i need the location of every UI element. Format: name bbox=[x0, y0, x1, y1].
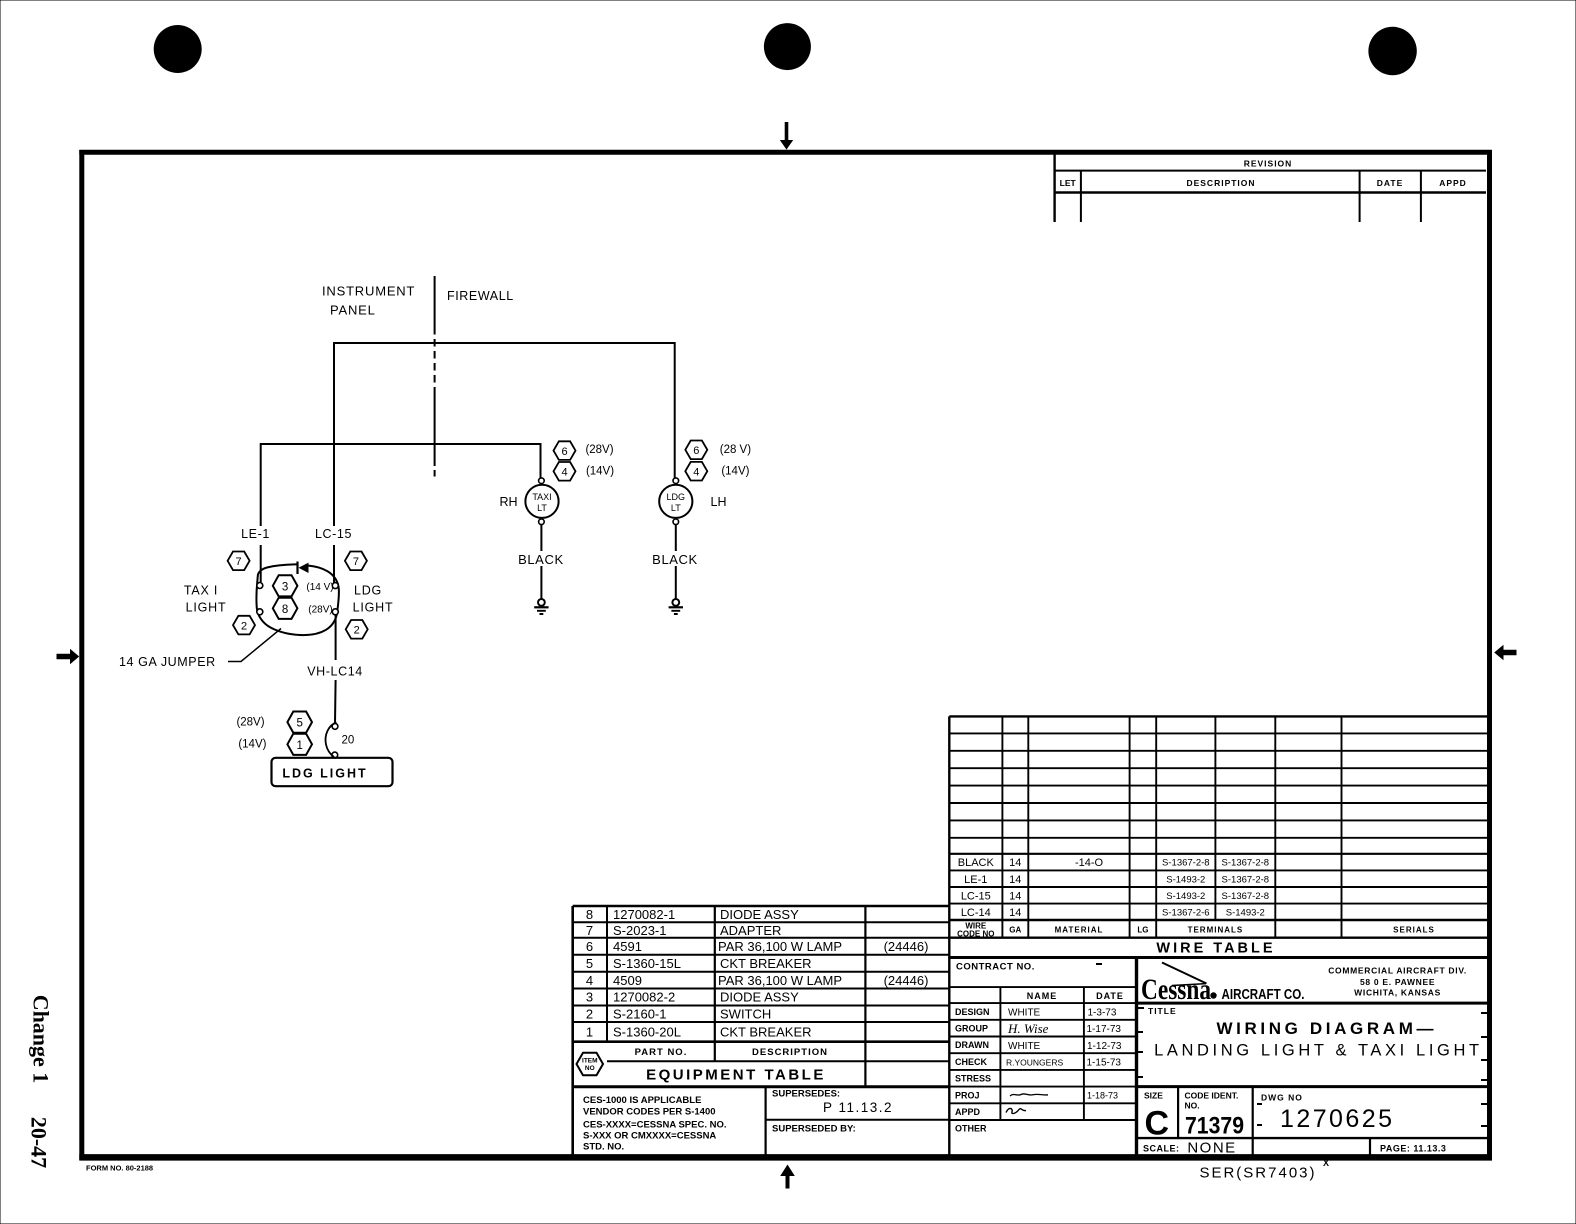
label (28V) at breaker bbox=[236, 716, 264, 728]
svg-text:GROUP: GROUP bbox=[955, 1024, 988, 1034]
diode in switch body bbox=[298, 562, 309, 575]
svg-text:S-1367-2-6: S-1367-2-6 bbox=[1162, 908, 1210, 919]
wire code hex 2 right bbox=[346, 620, 368, 639]
svg-text:4: 4 bbox=[693, 466, 699, 478]
svg-text:S-1360-15L: S-1360-15L bbox=[613, 956, 681, 971]
title block grid bbox=[949, 958, 1489, 1158]
svg-text:S-2160-1: S-2160-1 bbox=[613, 1007, 666, 1022]
wire LE-1 to RH lamp run bbox=[261, 444, 541, 582]
svg-text:SUPERSEDES:: SUPERSEDES: bbox=[772, 1089, 840, 1100]
svg-text:WICHITA, KANSAS: WICHITA, KANSAS bbox=[1354, 988, 1441, 998]
switch S2 body (taxi/ldg light switch housing) bbox=[256, 564, 338, 635]
Cessna address bbox=[1328, 965, 1467, 997]
svg-text:PANEL: PANEL bbox=[330, 303, 376, 318]
svg-text:(24446): (24446) bbox=[884, 973, 929, 988]
svg-text:LIGHT: LIGHT bbox=[353, 601, 394, 615]
svg-text:PAR 36,100 W LAMP: PAR 36,100 W LAMP bbox=[718, 973, 842, 988]
punch hole right bbox=[1368, 27, 1416, 75]
label TAXI LIGHT bbox=[184, 584, 227, 615]
svg-text:LE-1: LE-1 bbox=[964, 874, 987, 886]
svg-text:DESCRIPTION: DESCRIPTION bbox=[1186, 178, 1255, 188]
svg-text:NO.: NO. bbox=[1185, 1101, 1200, 1111]
APPD signature squiggle bbox=[1006, 1108, 1026, 1113]
svg-text:S-XXX OR CMXXXX=CESSNA: S-XXX OR CMXXXX=CESSNA bbox=[583, 1131, 716, 1142]
svg-text:BLACK: BLACK bbox=[958, 857, 995, 869]
svg-text:(28 V): (28 V) bbox=[720, 444, 751, 456]
svg-text:CES-XXXX=CESSNA SPEC. NO.: CES-XXXX=CESSNA SPEC. NO. bbox=[583, 1120, 727, 1131]
svg-text:1-15-73: 1-15-73 bbox=[1087, 1058, 1122, 1069]
label INSTRUMENT PANEL bbox=[322, 284, 415, 318]
equipment table grid bbox=[573, 906, 950, 1157]
size / code ident / dwg no bbox=[1144, 1091, 1392, 1143]
svg-text:STRESS: STRESS bbox=[955, 1074, 991, 1084]
wire code hex 4 at RH lamp bbox=[554, 462, 576, 481]
svg-text:3: 3 bbox=[586, 990, 593, 1005]
svg-text:DESCRIPTION: DESCRIPTION bbox=[752, 1047, 828, 1058]
terminal node right-top of switch bbox=[332, 583, 338, 589]
svg-text:SIZE: SIZE bbox=[1144, 1091, 1163, 1101]
svg-text:LH: LH bbox=[711, 495, 727, 509]
punch hole left bbox=[154, 25, 202, 73]
wire code hex 6 at RH lamp bbox=[554, 441, 576, 460]
svg-text:CKT BREAKER: CKT BREAKER bbox=[720, 956, 812, 971]
svg-text:H. Wise: H. Wise bbox=[1007, 1021, 1049, 1036]
svg-text:8: 8 bbox=[282, 604, 288, 616]
svg-text:14: 14 bbox=[1009, 857, 1021, 869]
svg-text:P 11.13.2: P 11.13.2 bbox=[823, 1100, 893, 1115]
svg-text:GA: GA bbox=[1009, 926, 1021, 935]
svg-text:ADAPTER: ADAPTER bbox=[720, 923, 781, 938]
Cessna logo bbox=[1141, 963, 1305, 1007]
svg-text:INSTRUMENT: INSTRUMENT bbox=[322, 284, 415, 299]
wire VH-LC14 (switch to breaker) bbox=[334, 615, 337, 724]
svg-text:SERIALS: SERIALS bbox=[1393, 926, 1435, 935]
label (28V) inside switch bbox=[308, 605, 332, 616]
svg-text:CONTRACT NO.: CONTRACT NO. bbox=[956, 962, 1035, 973]
svg-text:SWITCH: SWITCH bbox=[720, 1007, 771, 1022]
svg-text:DATE: DATE bbox=[1096, 991, 1124, 1001]
item hex 8 inside switch bbox=[273, 598, 298, 619]
svg-text:X: X bbox=[1323, 1158, 1329, 1168]
label BLACK (RH) bbox=[514, 551, 569, 567]
label (28V) at LH hex bbox=[720, 444, 751, 456]
svg-text:S-1367-2-8: S-1367-2-8 bbox=[1222, 874, 1270, 885]
svg-text:1: 1 bbox=[296, 740, 302, 752]
svg-text:(14V): (14V) bbox=[586, 466, 614, 478]
svg-text:STD. NO.: STD. NO. bbox=[583, 1142, 624, 1153]
svg-text:4591: 4591 bbox=[613, 939, 642, 954]
svg-text:PART NO.: PART NO. bbox=[635, 1047, 688, 1058]
svg-text:APPD: APPD bbox=[955, 1107, 981, 1117]
label LH bbox=[711, 495, 727, 509]
svg-text:7: 7 bbox=[353, 556, 359, 568]
item-no hex symbol bbox=[577, 1053, 604, 1076]
svg-text:(14V): (14V) bbox=[721, 466, 749, 478]
svg-text:EQUIPMENT TABLE: EQUIPMENT TABLE bbox=[646, 1067, 826, 1084]
svg-text:SCALE:: SCALE: bbox=[1143, 1144, 1180, 1154]
SER note below border bbox=[1199, 1158, 1329, 1182]
right edge alignment arrow bbox=[1494, 645, 1516, 660]
wire code hex 2 left bbox=[233, 616, 255, 635]
PROJ signature squiggle bbox=[1010, 1094, 1048, 1096]
svg-text:2: 2 bbox=[586, 1007, 593, 1022]
svg-text:S-1367-2-8: S-1367-2-8 bbox=[1162, 858, 1210, 869]
bottom center alignment arrow bbox=[780, 1165, 795, 1189]
sheet border frame bbox=[79, 150, 1492, 1160]
svg-text:LG: LG bbox=[1137, 926, 1148, 935]
svg-text:BLACK: BLACK bbox=[652, 552, 698, 567]
label (14V) at LH hex bbox=[721, 466, 749, 478]
svg-text:CODE NO: CODE NO bbox=[957, 930, 994, 939]
svg-text:WHITE: WHITE bbox=[1008, 1007, 1041, 1018]
svg-text:-14-O: -14-O bbox=[1075, 857, 1104, 869]
punch hole center bbox=[764, 23, 811, 70]
svg-text:LDG: LDG bbox=[354, 584, 382, 598]
personnel names/dates bbox=[1006, 1007, 1122, 1100]
label (28V) at RH hex bbox=[585, 444, 613, 456]
personnel table headers bbox=[1027, 991, 1124, 1001]
svg-text:1-3-73: 1-3-73 bbox=[1088, 1007, 1117, 1018]
svg-text:Cessna: Cessna bbox=[1141, 973, 1211, 1006]
svg-text:58 0 E. PAWNEE: 58 0 E. PAWNEE bbox=[1360, 977, 1435, 987]
margin text 20-47 bbox=[27, 1117, 52, 1168]
svg-text:14: 14 bbox=[1009, 891, 1021, 903]
svg-text:LE-1: LE-1 bbox=[241, 527, 270, 541]
svg-text:1: 1 bbox=[586, 1025, 593, 1040]
wire code hex 4 at LH lamp bbox=[685, 462, 707, 481]
svg-text:CHECK: CHECK bbox=[955, 1057, 988, 1067]
svg-text:PROJ: PROJ bbox=[955, 1090, 980, 1100]
svg-text:(28V): (28V) bbox=[308, 605, 332, 616]
svg-text:(28V): (28V) bbox=[236, 716, 264, 728]
svg-text:SUPERSEDED BY:: SUPERSEDED BY: bbox=[772, 1124, 856, 1135]
svg-text:14 GA JUMPER: 14 GA JUMPER bbox=[119, 655, 216, 669]
svg-text:6: 6 bbox=[693, 445, 699, 457]
svg-text:S-1493-2: S-1493-2 bbox=[1166, 874, 1205, 885]
svg-text:5: 5 bbox=[296, 718, 302, 730]
svg-text:TAX I: TAX I bbox=[184, 584, 218, 598]
svg-text:VH-LC14: VH-LC14 bbox=[307, 665, 363, 679]
ground LH bbox=[669, 599, 683, 614]
svg-text:WHITE: WHITE bbox=[1008, 1041, 1041, 1052]
wire table headers bbox=[957, 922, 1435, 939]
wire table data bbox=[958, 857, 1104, 919]
svg-text:S-1367-2-8: S-1367-2-8 bbox=[1222, 858, 1270, 869]
svg-text:(14V): (14V) bbox=[238, 739, 266, 751]
svg-text:7: 7 bbox=[236, 556, 242, 568]
wire code hex 7 right of LC-15 bbox=[345, 552, 367, 571]
svg-text:DWG NO: DWG NO bbox=[1261, 1093, 1303, 1103]
svg-text:NAME: NAME bbox=[1027, 991, 1058, 1001]
equipment table headers bbox=[635, 1047, 828, 1084]
node LE-1 name bbox=[241, 527, 270, 541]
label FIREWALL bbox=[447, 289, 514, 303]
contract no box bbox=[956, 962, 1035, 973]
svg-text:20: 20 bbox=[342, 735, 355, 747]
margin text Change 1 bbox=[29, 995, 54, 1084]
svg-text:LT: LT bbox=[537, 503, 547, 513]
svg-text:1270082-2: 1270082-2 bbox=[613, 990, 675, 1005]
svg-text:NO: NO bbox=[585, 1065, 595, 1072]
svg-text:TAXI: TAXI bbox=[532, 492, 551, 502]
supersedes box bbox=[772, 1089, 893, 1135]
wire LC-15 to LH lamp (top run) bbox=[334, 343, 675, 583]
item hex 5 at breaker bbox=[287, 712, 312, 733]
node LC-15 name bbox=[315, 527, 352, 541]
equipment table items bbox=[586, 907, 929, 1039]
svg-text:CKT BREAKER: CKT BREAKER bbox=[720, 1025, 812, 1040]
form number bbox=[86, 1164, 153, 1173]
svg-text:6: 6 bbox=[561, 446, 567, 458]
svg-text:LIGHT: LIGHT bbox=[186, 601, 227, 615]
svg-text:REVISION: REVISION bbox=[1244, 159, 1293, 169]
svg-text:CODE IDENT.: CODE IDENT. bbox=[1185, 1091, 1239, 1101]
item hex 1 at breaker bbox=[287, 734, 312, 755]
LDG LIGHT bus box bbox=[272, 758, 393, 786]
personnel table rows bbox=[955, 1007, 991, 1134]
wire code hex 7 left of LE-1 bbox=[228, 552, 250, 571]
svg-text:2: 2 bbox=[241, 620, 247, 632]
wire LH lamp to ground bbox=[675, 525, 677, 599]
label 14 GA JUMPER with leader bbox=[119, 629, 281, 669]
label (14V) at RH hex bbox=[586, 466, 614, 478]
svg-text:FORM NO. 80-2188: FORM NO. 80-2188 bbox=[86, 1164, 153, 1173]
svg-text:CES-1000 IS APPLICABLE: CES-1000 IS APPLICABLE bbox=[583, 1095, 701, 1106]
svg-text:APPD: APPD bbox=[1439, 178, 1467, 188]
label LDG LIGHT bbox=[353, 584, 394, 615]
svg-text:WIRE TABLE: WIRE TABLE bbox=[1156, 941, 1275, 957]
svg-text:LANDING LIGHT & TAXI LIGHT: LANDING LIGHT & TAXI LIGHT bbox=[1154, 1042, 1479, 1060]
vendor code notes bbox=[583, 1095, 727, 1153]
svg-text:1270082-1: 1270082-1 bbox=[613, 907, 675, 922]
svg-text:R.YOUNGERS: R.YOUNGERS bbox=[1006, 1058, 1063, 1068]
svg-text:S-2023-1: S-2023-1 bbox=[613, 923, 666, 938]
svg-text:1270625: 1270625 bbox=[1280, 1105, 1392, 1133]
svg-text:71379: 71379 bbox=[1185, 1113, 1244, 1140]
svg-text:TITLE: TITLE bbox=[1148, 1006, 1177, 1016]
item hex 3 inside switch bbox=[273, 575, 298, 596]
label (14V) inside switch bbox=[306, 582, 333, 593]
wire RH lamp to ground bbox=[540, 525, 542, 599]
svg-text:1-12-73: 1-12-73 bbox=[1087, 1041, 1122, 1052]
svg-text:DIODE ASSY: DIODE ASSY bbox=[720, 907, 799, 922]
svg-text:LC-14: LC-14 bbox=[961, 907, 991, 919]
svg-text:S-1360-20L: S-1360-20L bbox=[613, 1025, 681, 1040]
title text bbox=[1148, 1006, 1479, 1060]
svg-text:4509: 4509 bbox=[613, 973, 642, 988]
revision table bbox=[1055, 154, 1486, 222]
svg-text:14: 14 bbox=[1009, 874, 1021, 886]
svg-text:2: 2 bbox=[354, 625, 360, 637]
label BLACK (LH) bbox=[648, 551, 703, 567]
svg-text:14: 14 bbox=[1009, 907, 1021, 919]
svg-text:DIODE ASSY: DIODE ASSY bbox=[720, 990, 799, 1005]
svg-text:PAR 36,100 W LAMP: PAR 36,100 W LAMP bbox=[718, 939, 842, 954]
svg-text:S-1493-2: S-1493-2 bbox=[1226, 908, 1265, 919]
left edge alignment arrow bbox=[57, 649, 80, 664]
label (14V) at breaker bbox=[238, 739, 266, 751]
node VH-LC14 name bbox=[307, 665, 363, 679]
svg-text:6: 6 bbox=[586, 939, 593, 954]
svg-text:RH: RH bbox=[499, 495, 517, 509]
svg-text:NONE: NONE bbox=[1187, 1140, 1236, 1157]
svg-text:DATE: DATE bbox=[1377, 178, 1404, 188]
svg-text:TERMINALS: TERMINALS bbox=[1188, 926, 1244, 935]
svg-text:BLACK: BLACK bbox=[518, 552, 564, 567]
svg-text:(24446): (24446) bbox=[884, 939, 929, 954]
circuit breaker CB1 (20A) bbox=[326, 723, 355, 758]
svg-text:S-1493-2: S-1493-2 bbox=[1166, 891, 1205, 902]
svg-text:(28V): (28V) bbox=[585, 444, 613, 456]
ground RH bbox=[534, 599, 548, 614]
svg-text:S-1367-2-8: S-1367-2-8 bbox=[1222, 891, 1270, 902]
svg-text:Change 1: Change 1 bbox=[29, 995, 54, 1084]
svg-text:4: 4 bbox=[586, 973, 593, 988]
svg-text:DESIGN: DESIGN bbox=[955, 1007, 990, 1017]
svg-text:C: C bbox=[1145, 1105, 1170, 1143]
paste-up tick marks bbox=[1096, 964, 1487, 1126]
top center alignment arrow bbox=[780, 122, 793, 150]
svg-text:3: 3 bbox=[282, 581, 288, 593]
svg-text:LC-15: LC-15 bbox=[961, 891, 991, 903]
svg-text:PAGE: 11.13.3: PAGE: 11.13.3 bbox=[1380, 1144, 1446, 1154]
svg-text:OTHER: OTHER bbox=[955, 1124, 987, 1134]
wire code hex 6 at LH lamp bbox=[685, 441, 707, 460]
svg-text:LET: LET bbox=[1060, 178, 1077, 188]
svg-text:VENDOR CODES PER S-1400: VENDOR CODES PER S-1400 bbox=[583, 1107, 716, 1118]
svg-text:20-47: 20-47 bbox=[27, 1117, 52, 1168]
svg-text:LDG LIGHT: LDG LIGHT bbox=[282, 767, 367, 781]
svg-text:1-18-73: 1-18-73 bbox=[1087, 1091, 1118, 1101]
svg-text:MATERIAL: MATERIAL bbox=[1055, 926, 1104, 935]
svg-text:COMMERCIAL AIRCRAFT DIV.: COMMERCIAL AIRCRAFT DIV. bbox=[1328, 965, 1467, 975]
lamp LH LDG LT bbox=[659, 478, 692, 525]
svg-text:DRAWN: DRAWN bbox=[955, 1040, 989, 1050]
svg-text:8: 8 bbox=[586, 907, 593, 922]
svg-text:7: 7 bbox=[586, 923, 593, 938]
terminal node left-top of switch bbox=[257, 583, 263, 589]
terminal node left-bottom of switch bbox=[257, 609, 263, 615]
wire table grid bbox=[949, 716, 1489, 957]
svg-text:LC-15: LC-15 bbox=[315, 527, 352, 541]
label RH bbox=[499, 495, 517, 509]
svg-text:1-17-73: 1-17-73 bbox=[1087, 1024, 1122, 1035]
svg-text:(14 V): (14 V) bbox=[306, 582, 333, 593]
lamp RH TAXI LT bbox=[525, 478, 558, 525]
svg-text:4: 4 bbox=[561, 467, 567, 479]
firewall boundary line (dash-dot) bbox=[434, 276, 436, 477]
svg-text:SER(SR7403): SER(SR7403) bbox=[1199, 1165, 1316, 1182]
svg-text:LDG: LDG bbox=[667, 492, 686, 502]
svg-text:ITEM: ITEM bbox=[582, 1058, 598, 1065]
terminal node right-bottom of switch bbox=[332, 609, 338, 615]
svg-text:WIRING DIAGRAM—: WIRING DIAGRAM— bbox=[1217, 1019, 1434, 1038]
svg-text:5: 5 bbox=[586, 956, 593, 971]
svg-text:FIREWALL: FIREWALL bbox=[447, 289, 514, 303]
scale / page row bbox=[1143, 1140, 1446, 1157]
svg-text:AIRCRAFT CO.: AIRCRAFT CO. bbox=[1222, 987, 1305, 1003]
svg-text:LT: LT bbox=[671, 503, 681, 513]
